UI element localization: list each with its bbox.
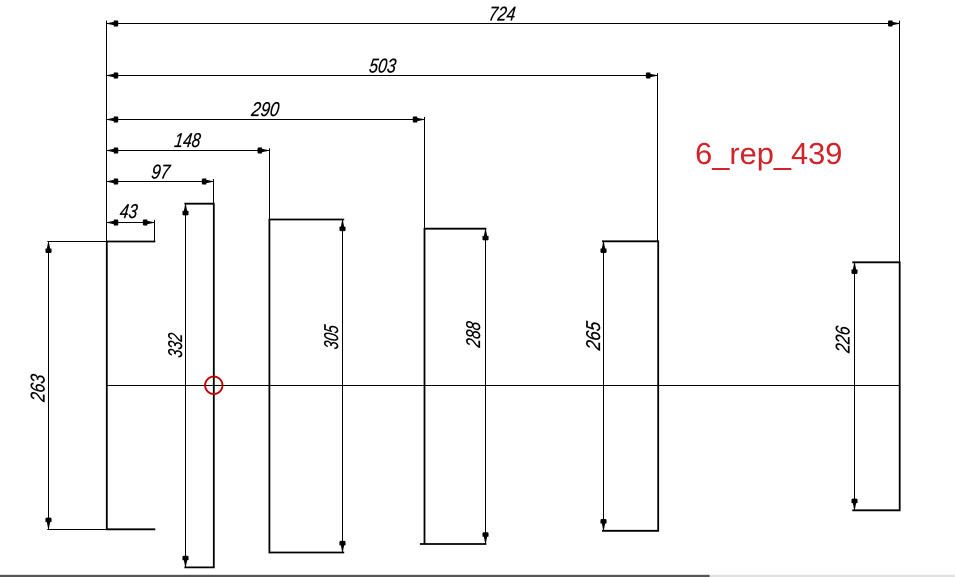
step S2 contour (184, 204, 213, 568)
svg-text:226: 226 (832, 324, 854, 355)
axis centerline (106, 385, 900, 387)
dimension 263 (vertical) (28, 241, 52, 529)
dimension 226 (vertical) (832, 262, 857, 510)
svg-text:290: 290 (249, 99, 280, 121)
svg-text:265: 265 (583, 320, 605, 352)
step S3 contour (269, 220, 344, 553)
svg-text:724: 724 (488, 4, 517, 26)
step S4 contour (420, 229, 487, 544)
extension line dim97 right (213, 179, 215, 204)
step S6 contour (852, 262, 899, 510)
extension line left datum x=106.6 (106, 21, 108, 242)
dimension 265 (vertical) (583, 241, 606, 530)
extension line dim724 right (899, 21, 901, 263)
step S5 contour (602, 241, 658, 531)
svg-text:503: 503 (368, 55, 398, 77)
dimension 43 (horizontal) (107, 201, 155, 225)
dimension 290 (horizontal) (107, 99, 425, 122)
extension line dim290 right (424, 117, 426, 229)
bottom bar dark segment (0, 575, 710, 577)
svg-text:288: 288 (463, 320, 485, 350)
extension line dim503 right (657, 73, 659, 241)
svg-text:263: 263 (28, 373, 50, 403)
svg-text:6_rep_439: 6_rep_439 (695, 136, 842, 171)
svg-text:148: 148 (173, 130, 202, 152)
dimension 503 (horizontal) (107, 55, 658, 78)
dimension 305 (vertical) (321, 220, 345, 553)
svg-text:305: 305 (321, 323, 343, 350)
extension line dim263 bottom (47, 529, 107, 531)
svg-text:43: 43 (119, 201, 139, 223)
bottom bar light segment (710, 575, 955, 577)
dimension 97 (horizontal) (107, 161, 214, 184)
dimension 148 (horizontal) (107, 130, 270, 153)
extension line dim43 right (154, 220, 156, 242)
extension line dim263 top (47, 241, 107, 243)
extension line dim148 right (269, 148, 271, 219)
dimension 724 (horizontal) (107, 4, 900, 27)
svg-text:97: 97 (150, 161, 172, 183)
step S1 contour (107, 242, 156, 530)
red circle marker at axis/step2 intersection (205, 377, 222, 394)
dimension 288 (vertical) (463, 229, 488, 544)
svg-text:332: 332 (165, 332, 187, 359)
dimension 332 (vertical) (165, 204, 188, 568)
